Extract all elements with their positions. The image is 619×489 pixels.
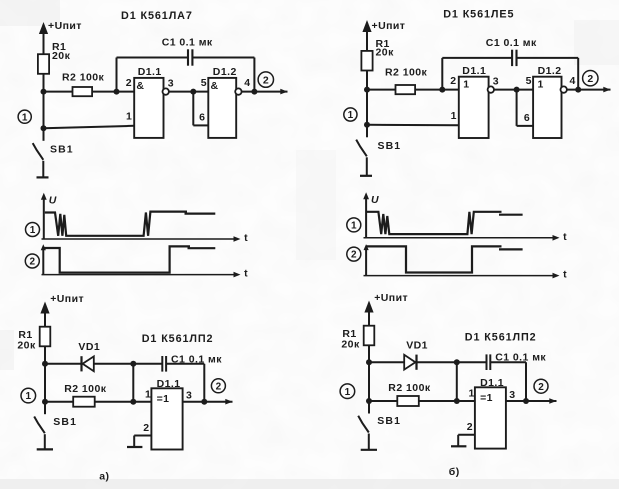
svg-text:t: t [563, 269, 567, 281]
svg-text:3: 3 [493, 76, 499, 88]
svg-text:3: 3 [509, 389, 515, 401]
svg-text:20к: 20к [17, 340, 36, 352]
svg-text:2: 2 [450, 75, 456, 87]
svg-text:1: 1 [345, 387, 351, 398]
svg-text:1: 1 [22, 112, 28, 123]
svg-text:5: 5 [201, 77, 207, 89]
svg-text:t: t [563, 231, 567, 243]
svg-text:1: 1 [351, 221, 357, 232]
svg-text:2: 2 [538, 382, 544, 393]
svg-text:U: U [371, 194, 379, 206]
svg-text:D1.1: D1.1 [480, 377, 504, 389]
svg-text:2: 2 [30, 257, 36, 268]
svg-text:D1 К561ЛП2: D1 К561ЛП2 [142, 333, 214, 345]
svg-text:&: & [211, 80, 219, 92]
svg-text:t: t [244, 232, 248, 244]
svg-text:а): а) [99, 470, 109, 482]
svg-text:D1.1: D1.1 [138, 66, 162, 78]
svg-text:20к: 20к [376, 47, 395, 59]
svg-text:D1.1: D1.1 [157, 378, 181, 390]
svg-text:SB1: SB1 [377, 415, 401, 427]
svg-text:1: 1 [26, 391, 32, 402]
svg-text:4: 4 [244, 77, 250, 89]
svg-text:1: 1 [348, 110, 354, 121]
svg-text:R2 100к: R2 100к [64, 383, 107, 395]
svg-text:t: t [244, 268, 248, 280]
svg-text:D1 К561ЛА7: D1 К561ЛА7 [121, 10, 193, 22]
svg-text:5: 5 [526, 75, 532, 87]
svg-text:1: 1 [469, 388, 475, 400]
svg-text:1: 1 [30, 225, 36, 236]
svg-text:20к: 20к [52, 50, 71, 62]
svg-text:D1.1: D1.1 [462, 65, 486, 77]
svg-text:D1.2: D1.2 [538, 65, 562, 77]
svg-text:R2 100к: R2 100к [388, 382, 431, 394]
svg-text:+Uпит: +Uпит [50, 293, 84, 305]
svg-text:3: 3 [186, 390, 192, 402]
svg-text:2: 2 [216, 381, 222, 392]
svg-text:+Uпит: +Uпит [372, 20, 406, 32]
svg-text:C1 0.1 мк: C1 0.1 мк [162, 37, 213, 49]
svg-text:R2 100к: R2 100к [62, 71, 105, 83]
svg-text:2: 2 [263, 74, 269, 86]
svg-text:6: 6 [524, 112, 530, 124]
svg-text:U: U [49, 195, 57, 207]
svg-text:1: 1 [538, 79, 544, 91]
svg-text:20к: 20к [341, 339, 360, 351]
svg-text:VD1: VD1 [78, 341, 100, 353]
svg-text:+Uпит: +Uпит [48, 20, 82, 32]
svg-text:R2 100к: R2 100к [385, 67, 428, 79]
svg-text:D1 К561ЛЕ5: D1 К561ЛЕ5 [443, 9, 514, 21]
svg-text:+Uпит: +Uпит [374, 292, 408, 304]
svg-text:2: 2 [126, 77, 132, 89]
svg-text:1: 1 [126, 111, 132, 123]
svg-text:2: 2 [587, 73, 593, 85]
svg-text:&: & [136, 80, 144, 92]
svg-text:б): б) [449, 466, 460, 478]
svg-text:2: 2 [467, 421, 473, 433]
svg-text:SB1: SB1 [53, 416, 77, 428]
svg-text:=1: =1 [480, 392, 493, 404]
svg-text:2: 2 [143, 422, 149, 434]
svg-text:2: 2 [351, 250, 357, 261]
svg-text:C1 0.1 мк: C1 0.1 мк [486, 37, 537, 49]
svg-text:=1: =1 [157, 393, 170, 405]
svg-text:4: 4 [570, 75, 576, 87]
svg-text:D1 К561ЛП2: D1 К561ЛП2 [465, 331, 537, 343]
svg-text:3: 3 [168, 78, 174, 90]
svg-text:1: 1 [463, 79, 469, 91]
svg-text:D1.2: D1.2 [213, 66, 237, 78]
svg-text:6: 6 [199, 111, 205, 123]
svg-text:SB1: SB1 [50, 143, 74, 155]
svg-text:VD1: VD1 [406, 339, 428, 351]
svg-text:SB1: SB1 [378, 140, 402, 152]
svg-text:1: 1 [451, 110, 457, 122]
svg-text:1: 1 [145, 388, 151, 400]
